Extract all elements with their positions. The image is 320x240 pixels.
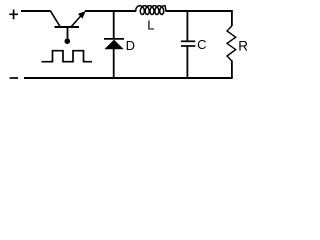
svg-text:D: D — [126, 38, 135, 53]
svg-text:R: R — [238, 38, 248, 53]
transistor Q1 base stub — [67, 27, 69, 39]
resistor R zigzag — [227, 26, 236, 61]
inductor L coil — [136, 6, 166, 15]
wire diode branch lower — [113, 49, 115, 79]
wire capacitor branch upper — [186, 10, 188, 41]
wire bottom rail — [24, 77, 233, 79]
transistor Q1 base bar — [55, 26, 80, 28]
wire top from transistor to inductor — [85, 10, 136, 12]
svg-text:C: C — [197, 37, 206, 52]
transistor Q1 emitter diagonal — [50, 11, 60, 27]
node - (negative input terminal) — [10, 77, 19, 79]
capacitor C bottom plate — [181, 45, 195, 47]
wire top-left from + to transistor — [21, 10, 51, 12]
capacitor C top plate — [181, 40, 195, 42]
wire capacitor branch lower — [186, 47, 188, 79]
transistor Q1 collector diagonal — [71, 14, 83, 28]
node + (positive input terminal) — [9, 10, 18, 20]
svg-text:L: L — [147, 18, 154, 33]
wire right rail lower — [231, 61, 233, 79]
diode D triangle — [104, 40, 123, 50]
wire top from inductor to right rail — [166, 10, 233, 12]
diode D cathode bar — [104, 38, 124, 40]
node base dot — [65, 38, 71, 44]
wire diode branch upper — [113, 10, 115, 39]
transistor Q1 arrowhead — [78, 11, 86, 19]
square wave drive signal — [42, 51, 93, 62]
wire right rail upper — [231, 10, 233, 26]
